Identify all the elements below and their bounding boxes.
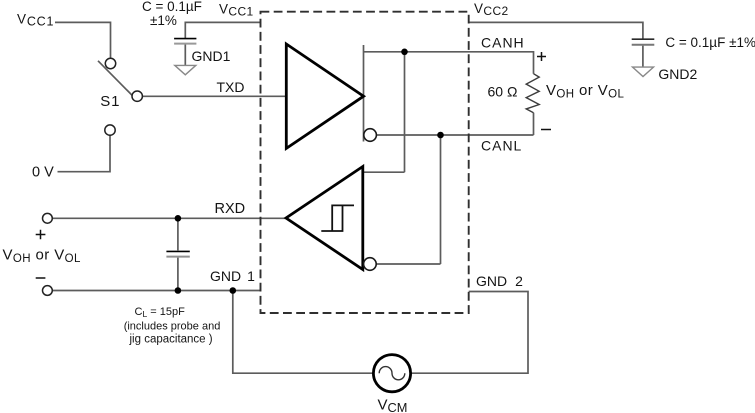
svg-text:jig capacitance ): jig capacitance ) bbox=[129, 334, 213, 346]
svg-text:±1%: ±1% bbox=[150, 13, 177, 28]
svg-text:CANH: CANH bbox=[481, 34, 525, 50]
svg-text:(includes probe and: (includes probe and bbox=[124, 321, 221, 333]
svg-text:GND2: GND2 bbox=[658, 66, 697, 82]
svg-text:GND1: GND1 bbox=[192, 48, 231, 64]
svg-text:60 Ω: 60 Ω bbox=[488, 84, 518, 100]
svg-text:0 V: 0 V bbox=[32, 165, 54, 181]
svg-text:TXD: TXD bbox=[217, 79, 245, 95]
svg-text:VOH or VOL: VOH or VOL bbox=[3, 246, 82, 265]
svg-text:RXD: RXD bbox=[215, 201, 246, 217]
svg-text:VCM: VCM bbox=[378, 397, 408, 413]
svg-text:GND2: GND2 bbox=[476, 273, 523, 289]
svg-text:S1: S1 bbox=[100, 93, 120, 110]
svg-text:VOH or VOL: VOH or VOL bbox=[546, 82, 625, 101]
svg-text:C = 0.1µF ±1%: C = 0.1µF ±1% bbox=[665, 35, 755, 50]
svg-text:C = 0.1µF: C = 0.1µF bbox=[142, 0, 202, 14]
svg-text:CL = 15pF: CL = 15pF bbox=[135, 306, 186, 319]
svg-text:VCC2: VCC2 bbox=[474, 1, 509, 18]
svg-text:CANL: CANL bbox=[481, 138, 522, 154]
svg-text:VCC1: VCC1 bbox=[17, 11, 54, 28]
svg-text:GND1: GND1 bbox=[210, 268, 255, 284]
svg-text:VCC1: VCC1 bbox=[219, 2, 254, 19]
